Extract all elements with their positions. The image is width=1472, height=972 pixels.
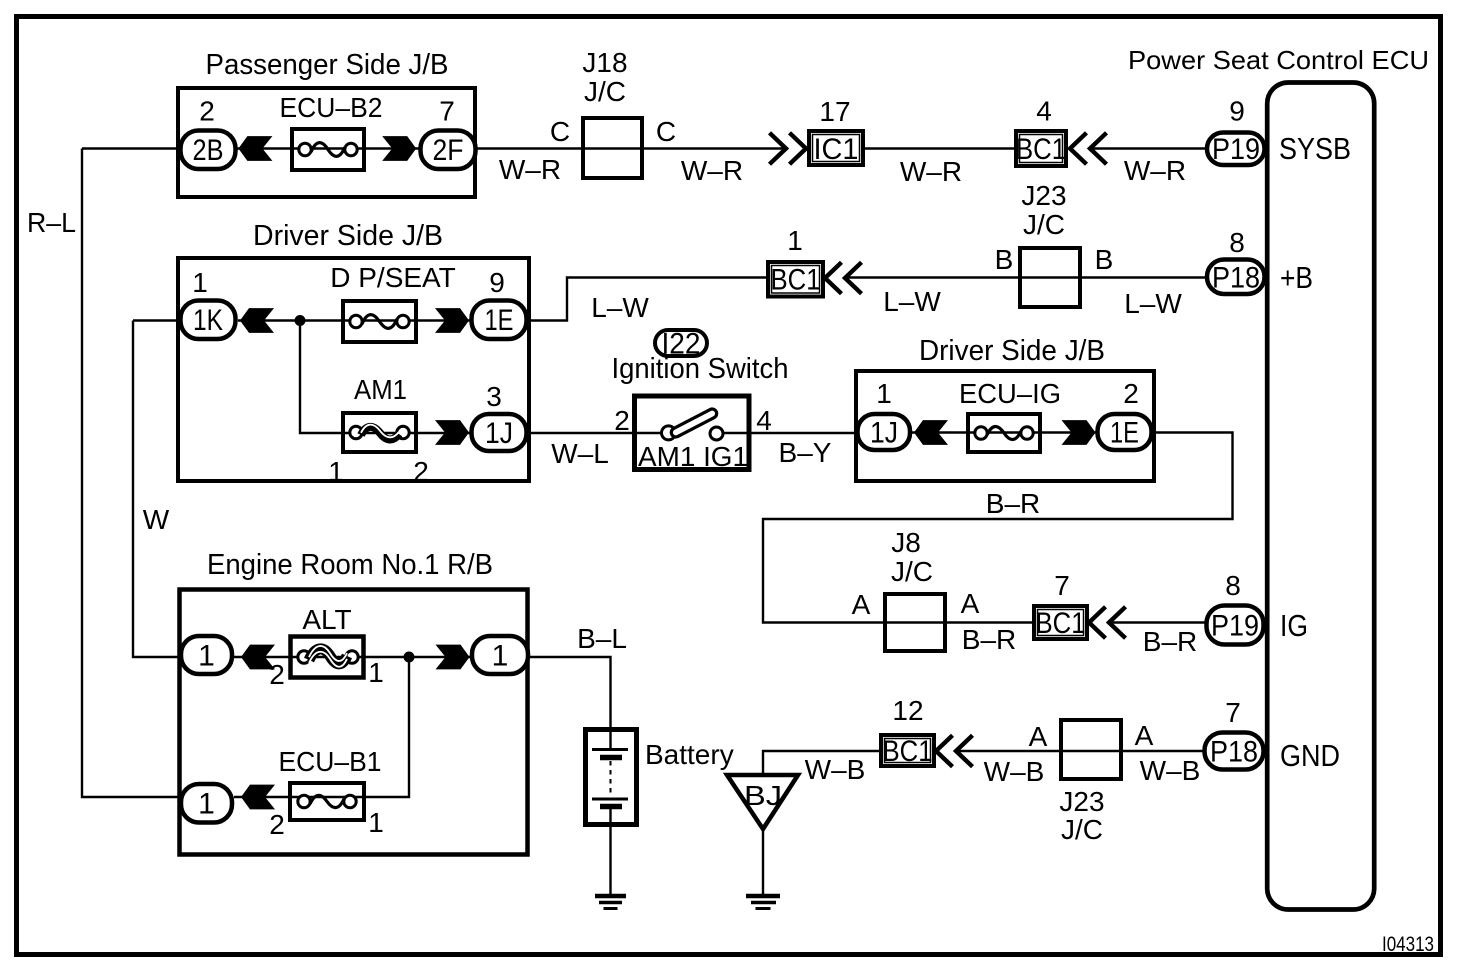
svg-text:Battery: Battery: [645, 739, 734, 770]
svg-text:P18: P18: [1210, 736, 1258, 769]
svg-text:A: A: [852, 589, 871, 620]
svg-text:W–L: W–L: [551, 438, 609, 469]
svg-text:1: 1: [198, 640, 215, 673]
svg-text:L–W: L–W: [883, 286, 941, 317]
svg-text:C: C: [656, 116, 676, 147]
svg-text:1J: 1J: [485, 417, 513, 450]
svg-text:W–R: W–R: [900, 156, 962, 187]
svg-text:J8: J8: [891, 527, 921, 558]
svg-text:1E: 1E: [485, 304, 514, 337]
svg-text:B–R: B–R: [986, 488, 1040, 519]
svg-text:8: 8: [1225, 570, 1241, 601]
svg-text:1E: 1E: [1110, 417, 1139, 450]
svg-text:P18: P18: [1212, 262, 1260, 295]
svg-text:BC1: BC1: [1016, 133, 1066, 166]
svg-text:8: 8: [1229, 227, 1245, 258]
svg-text:I22: I22: [662, 328, 701, 361]
svg-text:12: 12: [892, 695, 923, 726]
svg-text:2: 2: [413, 456, 429, 487]
svg-text:B: B: [995, 244, 1014, 275]
svg-text:9: 9: [1229, 96, 1245, 127]
svg-text:J/C: J/C: [1061, 814, 1103, 845]
svg-text:C: C: [550, 116, 570, 147]
svg-text:W–R: W–R: [1124, 155, 1186, 186]
svg-text:17: 17: [819, 96, 850, 127]
svg-text:Power Seat Control ECU: Power Seat Control ECU: [1128, 45, 1429, 75]
svg-text:Passenger Side J/B: Passenger Side J/B: [206, 49, 449, 81]
svg-text:1: 1: [192, 267, 208, 298]
svg-text:1: 1: [368, 657, 384, 688]
svg-text:2F: 2F: [433, 134, 464, 167]
svg-text:W: W: [143, 504, 170, 535]
svg-text:BC1: BC1: [883, 735, 933, 768]
svg-text:Driver Side J/B: Driver Side J/B: [253, 220, 443, 252]
svg-text:9: 9: [489, 267, 505, 298]
svg-text:D P/SEAT: D P/SEAT: [330, 262, 456, 293]
svg-text:1K: 1K: [193, 304, 223, 337]
svg-text:1: 1: [492, 640, 509, 673]
svg-text:ECU–B1: ECU–B1: [279, 746, 382, 777]
svg-text:J/C: J/C: [1023, 209, 1065, 240]
svg-text:AM1: AM1: [354, 374, 407, 405]
svg-text:2: 2: [269, 809, 285, 840]
svg-text:L–W: L–W: [1124, 288, 1182, 319]
svg-text:4: 4: [1036, 96, 1052, 127]
svg-text:Engine Room No.1 R/B: Engine Room No.1 R/B: [207, 549, 493, 581]
svg-text:W–B: W–B: [1140, 755, 1201, 786]
svg-text:J/C: J/C: [891, 556, 933, 587]
svg-text:I04313: I04313: [1382, 933, 1434, 956]
svg-text:AM1 IG1: AM1 IG1: [638, 441, 748, 472]
svg-text:IC1: IC1: [814, 133, 859, 166]
svg-text:1: 1: [328, 456, 344, 487]
svg-text:R–L: R–L: [27, 207, 76, 238]
svg-text:GND: GND: [1280, 738, 1340, 773]
svg-text:1: 1: [368, 807, 384, 838]
svg-text:B: B: [1095, 244, 1114, 275]
svg-text:J23: J23: [1021, 180, 1066, 211]
svg-text:BC1: BC1: [1036, 607, 1086, 640]
svg-text:ECU–B2: ECU–B2: [280, 92, 383, 123]
svg-text:1: 1: [198, 788, 215, 821]
svg-text:J18: J18: [582, 47, 627, 78]
svg-text:SYSB: SYSB: [1279, 131, 1351, 166]
svg-text:2B: 2B: [193, 134, 224, 167]
svg-text:L–W: L–W: [591, 292, 649, 323]
svg-text:BJ: BJ: [744, 780, 782, 811]
svg-text:+B: +B: [1280, 260, 1313, 295]
svg-text:IG: IG: [1280, 608, 1308, 643]
svg-text:1: 1: [787, 225, 803, 256]
svg-text:B–R: B–R: [962, 624, 1016, 655]
svg-text:J23: J23: [1059, 786, 1104, 817]
svg-text:2: 2: [614, 405, 630, 436]
svg-text:W–B: W–B: [805, 754, 866, 785]
svg-text:2: 2: [1123, 378, 1139, 409]
svg-text:W–B: W–B: [984, 756, 1045, 787]
svg-text:ALT: ALT: [302, 604, 351, 635]
svg-text:ECU–IG: ECU–IG: [959, 378, 1061, 409]
svg-text:B–Y: B–Y: [779, 437, 832, 468]
svg-text:1J: 1J: [870, 417, 898, 450]
svg-text:P19: P19: [1212, 133, 1260, 166]
svg-text:A: A: [1135, 720, 1154, 751]
svg-text:2: 2: [199, 96, 215, 127]
svg-text:BC1: BC1: [771, 264, 821, 297]
svg-text:A: A: [961, 588, 980, 619]
svg-text:A: A: [1029, 721, 1048, 752]
svg-text:3: 3: [486, 381, 502, 412]
svg-text:W–R: W–R: [681, 155, 743, 186]
svg-text:P19: P19: [1211, 610, 1259, 643]
svg-text:B–R: B–R: [1143, 626, 1197, 657]
svg-text:7: 7: [1054, 570, 1070, 601]
svg-text:7: 7: [439, 96, 455, 127]
svg-text:7: 7: [1225, 697, 1241, 728]
svg-text:Driver Side J/B: Driver Side J/B: [919, 335, 1105, 367]
svg-text:B–L: B–L: [577, 623, 627, 654]
svg-text:1: 1: [876, 378, 892, 409]
svg-text:J/C: J/C: [584, 76, 626, 107]
svg-text:W–R: W–R: [499, 154, 561, 185]
svg-text:2: 2: [269, 659, 285, 690]
svg-text:4: 4: [756, 405, 772, 436]
